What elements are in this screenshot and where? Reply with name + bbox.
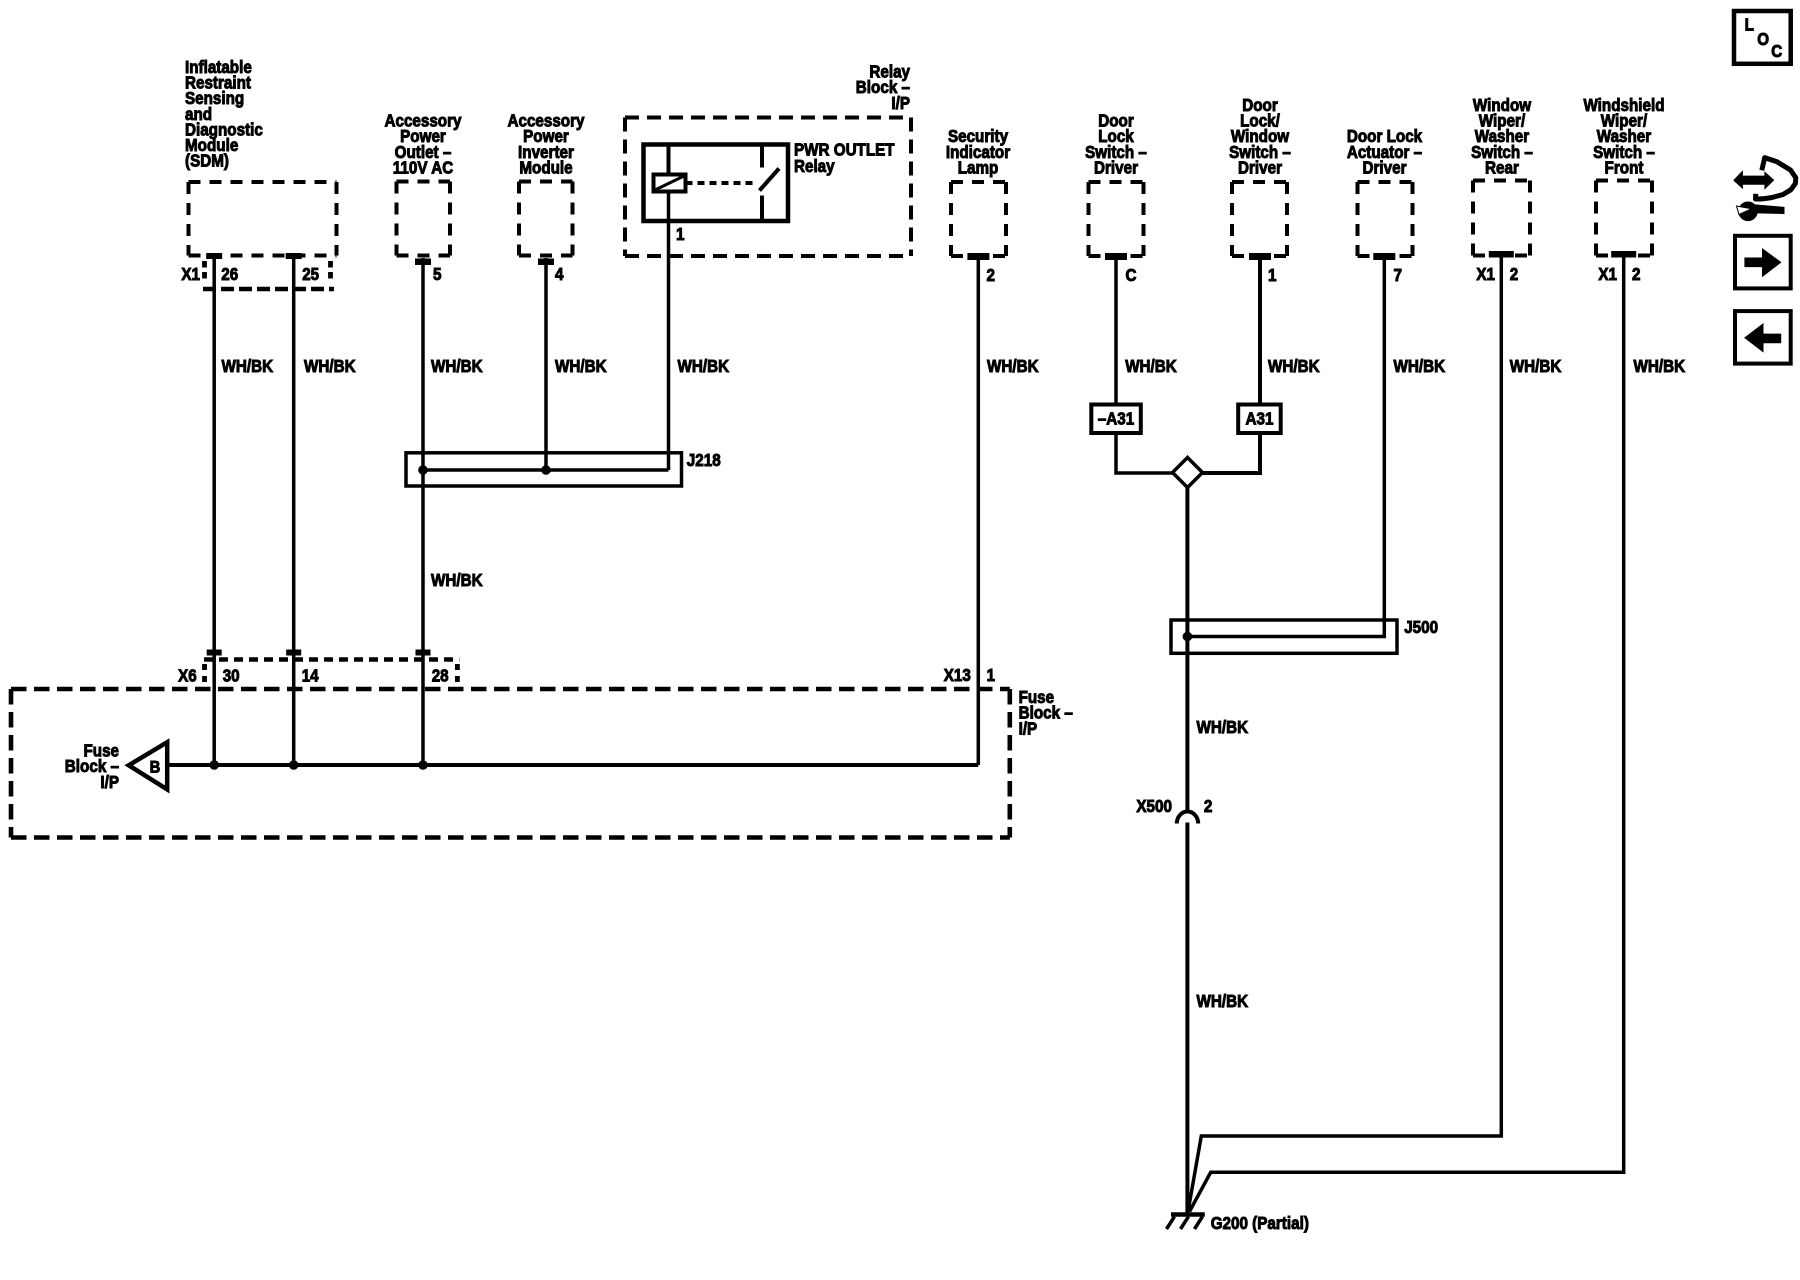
wire door lock switch C upper [1114, 256, 1118, 405]
pin 7 label [1394, 265, 1403, 285]
svg-text:X1: X1 [1598, 264, 1617, 284]
ground G200 hatch 2 [1181, 1217, 1189, 1230]
label X1 (rear wiper) [1476, 264, 1495, 284]
fuse block I/P dashed box [11, 689, 1010, 838]
ground G200 hatch 3 [1195, 1217, 1203, 1230]
module Door Lock Window Switch Driver label [1229, 95, 1291, 178]
label J218 [687, 450, 721, 470]
wire color label WH/BK #4 [555, 356, 607, 376]
pin stub 2 (front wiper) [1612, 252, 1636, 258]
module SDM (Inflatable Restraint Sensing and Diagnostic Module) label [185, 57, 263, 171]
svg-text:5: 5 [433, 264, 442, 284]
pin 5 label [433, 264, 442, 284]
label G200 (Partial) [1211, 1213, 1309, 1233]
svg-text:WH/BK: WH/BK [1125, 356, 1177, 376]
module Accessory Power Inverter dashed box [519, 182, 573, 256]
svg-text:A31: A31 [1246, 409, 1274, 429]
svg-text:I/P: I/P [891, 93, 910, 113]
wire front wiper to G200 [1190, 256, 1624, 1212]
svg-text:C: C [1771, 41, 1782, 61]
icon LOC box [1734, 11, 1791, 64]
wire color label WH/BK #14 [1197, 991, 1249, 1011]
pin stub 2 (lamp) [968, 254, 989, 260]
pin C label [1126, 265, 1137, 285]
label X13 [944, 665, 971, 685]
pin stub 7 [1374, 254, 1395, 260]
svg-text:X1: X1 [1476, 264, 1495, 284]
svg-text:14: 14 [302, 666, 319, 686]
icon jump double arrow [1734, 171, 1774, 188]
pin stub 14 (X6) [287, 650, 301, 655]
svg-text:L: L [1745, 15, 1755, 35]
svg-text:C: C [1126, 265, 1137, 285]
svg-text:Lamp: Lamp [958, 158, 999, 178]
connector X6 strip [204, 660, 459, 687]
junction dot bus/26 [210, 761, 219, 770]
fuse block corner label [1019, 687, 1073, 738]
relay switch fixed contact [760, 145, 764, 168]
connector J500 box [1171, 620, 1397, 653]
ground G200 bar [1171, 1212, 1205, 1217]
wire SDM pin 26 to fuse bus [212, 256, 216, 765]
relay block I/P label [856, 62, 910, 113]
svg-text:WH/BK: WH/BK [1197, 991, 1249, 1011]
svg-text:WH/BK: WH/BK [1634, 356, 1686, 376]
pin 2 label (lamp) [987, 265, 996, 285]
relay block dashed box [625, 118, 911, 257]
pin stub 26 [207, 254, 222, 259]
wire J218 internal [423, 468, 669, 472]
svg-text:WH/BK: WH/BK [555, 356, 607, 376]
pin stub 4 [539, 259, 554, 265]
label X1 (front wiper) [1598, 264, 1617, 284]
junction dot J218/inverter [542, 466, 551, 475]
module Door Lock Switch dashed box [1089, 182, 1144, 256]
svg-text:2: 2 [1510, 264, 1519, 284]
svg-text:110V AC: 110V AC [393, 158, 454, 178]
svg-text:WH/BK: WH/BK [304, 356, 356, 376]
svg-text:X6: X6 [178, 666, 197, 686]
pin stub 28 (X6) [416, 650, 430, 655]
svg-text:Relay: Relay [794, 156, 835, 176]
svg-text:Module: Module [519, 158, 573, 178]
svg-text:2: 2 [987, 265, 996, 285]
wire door lock actuator 7 through J500 [1187, 256, 1384, 637]
module Door Lock Actuator Driver label [1347, 126, 1423, 177]
junction dot J218/outlet [419, 466, 428, 475]
pin 1 label (relay) [676, 224, 685, 244]
svg-text:I/P: I/P [1019, 718, 1038, 738]
svg-text:O: O [1757, 29, 1769, 49]
pin 25 label [302, 264, 319, 284]
wire color label WH/BK #3 [431, 356, 483, 376]
module Security Indicator Lamp dashed box [951, 182, 1006, 256]
pin stub 25 [286, 254, 301, 259]
label J500 [1404, 617, 1438, 637]
svg-text:Driver: Driver [1094, 158, 1138, 178]
wire color label WH/BK #11 [1634, 356, 1686, 376]
fuse block inner label [65, 741, 119, 792]
module Accessory Power Outlet dashed box [397, 182, 451, 256]
svg-text:WH/BK: WH/BK [678, 356, 730, 376]
connector X1 strip (SDM) [203, 261, 334, 289]
wire door lock switch C lower to splice [1116, 433, 1174, 473]
wire inverter pin 4 to J218 [544, 258, 548, 470]
wire color label WH/BK #9 [1394, 356, 1446, 376]
wire rear wiper to G200 [1188, 256, 1501, 1212]
ground G200 hatch 1 [1167, 1217, 1175, 1230]
wire color label WH/BK #7 [1125, 356, 1177, 376]
relay actuation dashed link [686, 181, 758, 185]
svg-text:X1: X1 [181, 264, 200, 284]
svg-text:1: 1 [987, 665, 996, 685]
svg-text:WH/BK: WH/BK [1394, 356, 1446, 376]
relay U1 PWR OUTLET Relay label [794, 140, 895, 177]
svg-text:(SDM): (SDM) [185, 151, 229, 171]
module SDM dashed box [189, 182, 337, 256]
component -A31 box [1091, 405, 1141, 434]
icon forward arrow box [1735, 236, 1791, 289]
pin 30 label [223, 666, 240, 686]
wire relay pin 1 to J218 [667, 192, 671, 471]
wire splice to X500 [1185, 488, 1189, 812]
pin 2 label (front wiper) [1632, 264, 1641, 284]
module Door Lock Actuator dashed box [1358, 182, 1413, 256]
label X6 [178, 666, 197, 686]
module Windshield Wiper Washer Switch Front label [1583, 95, 1664, 178]
wire fuse bus horizontal [167, 763, 978, 767]
svg-text:WH/BK: WH/BK [1510, 356, 1562, 376]
pin 1 label (window switch) [1268, 265, 1277, 285]
svg-text:G200 (Partial): G200 (Partial) [1211, 1213, 1309, 1233]
module Security Indicator Lamp label [946, 126, 1010, 177]
svg-text:26: 26 [221, 264, 238, 284]
wire door lock/window switch 1 lower to splice [1201, 433, 1260, 473]
component A31 box [1238, 405, 1281, 434]
wire door lock/window switch 1 upper [1258, 256, 1262, 405]
svg-text:–A31: –A31 [1098, 409, 1135, 429]
svg-text:Front: Front [1605, 158, 1644, 178]
pin 4 label [555, 264, 564, 284]
svg-text:4: 4 [555, 264, 564, 284]
module Window Wiper Washer Switch Rear label [1471, 95, 1533, 178]
pin 14 label [302, 666, 319, 686]
junction dot bus/25 [289, 761, 298, 770]
wire color label WH/BK #13 [1197, 717, 1249, 737]
svg-text:B: B [150, 758, 161, 777]
module Door Lock Switch Driver label [1085, 111, 1147, 178]
svg-text:X13: X13 [944, 665, 971, 685]
module Accessory Power Inverter Module label [508, 111, 585, 178]
svg-text:J218: J218 [687, 450, 721, 470]
wire security lamp pin 2 to fuse bus [977, 256, 981, 765]
pin stub 1 (window switch) [1250, 254, 1271, 260]
svg-text:28: 28 [432, 666, 449, 686]
icon jump outline arrow [1756, 158, 1796, 199]
svg-text:WH/BK: WH/BK [1197, 717, 1249, 737]
svg-text:I/P: I/P [100, 772, 119, 792]
svg-text:2: 2 [1204, 796, 1213, 816]
pin 1 label (X13) [987, 665, 996, 685]
relay outline box [644, 145, 789, 222]
pin stub 30 (X6) [207, 650, 221, 655]
svg-text:Driver: Driver [1238, 158, 1282, 178]
svg-text:WH/BK: WH/BK [431, 356, 483, 376]
pin 26 label [221, 264, 238, 284]
pin stub 2 (rear wiper) [1489, 252, 1513, 258]
terminal triangle B [129, 742, 168, 789]
wire color label WH/BK #12 [431, 570, 483, 590]
wire SDM pin 25 to fuse bus [292, 256, 296, 765]
svg-text:Rear: Rear [1485, 158, 1519, 178]
connector J218 box [406, 453, 682, 486]
relay coil top lead [667, 145, 671, 175]
relay switch lower lead [760, 196, 764, 222]
pin 2 label (X500) [1204, 796, 1213, 816]
icon back arrow box [1735, 311, 1791, 364]
svg-text:WH/BK: WH/BK [431, 570, 483, 590]
junction dot J500 [1183, 632, 1192, 641]
pin 28 label [432, 666, 449, 686]
relay coil [654, 175, 686, 192]
svg-text:30: 30 [223, 666, 240, 686]
svg-text:WH/BK: WH/BK [987, 356, 1039, 376]
pin 2 label (rear wiper) [1510, 264, 1519, 284]
module Windshield Wiper Washer Front dashed box [1596, 181, 1652, 256]
wire color label WH/BK #8 [1268, 356, 1320, 376]
svg-text:WH/BK: WH/BK [1268, 356, 1320, 376]
wire color label WH/BK #2 [304, 356, 356, 376]
module Door Lock Window Switch dashed box [1232, 182, 1287, 256]
module Accessory Power Outlet 110V AC label [385, 111, 462, 178]
svg-text:1: 1 [676, 224, 685, 244]
svg-text:1: 1 [1268, 265, 1277, 285]
icon wrench [1737, 202, 1785, 221]
wire color label WH/BK #5 [678, 356, 730, 376]
label X1 (SDM connector) [181, 264, 200, 284]
relay switch blade [760, 169, 780, 191]
svg-text:X500: X500 [1136, 796, 1172, 816]
label X500 [1136, 796, 1172, 816]
junction dot bus/outlet [419, 761, 428, 770]
svg-text:Driver: Driver [1363, 158, 1407, 178]
pin stub C [1106, 254, 1127, 260]
pin stub 5 [416, 259, 431, 265]
wire outlet pin 5 through J218 to fuse bus [421, 258, 425, 765]
module Window Wiper Washer Rear dashed box [1473, 181, 1530, 256]
svg-text:J500: J500 [1404, 617, 1438, 637]
wire color label WH/BK #1 [222, 356, 274, 376]
wire color label WH/BK #10 [1510, 356, 1562, 376]
svg-text:25: 25 [302, 264, 319, 284]
splice diamond S1 [1173, 458, 1203, 488]
svg-text:WH/BK: WH/BK [222, 356, 274, 376]
connector X500 arc [1177, 812, 1198, 824]
wire X500 to G200 [1185, 823, 1189, 1215]
svg-text:2: 2 [1632, 264, 1641, 284]
svg-text:7: 7 [1394, 265, 1403, 285]
wire color label WH/BK #6 [987, 356, 1039, 376]
